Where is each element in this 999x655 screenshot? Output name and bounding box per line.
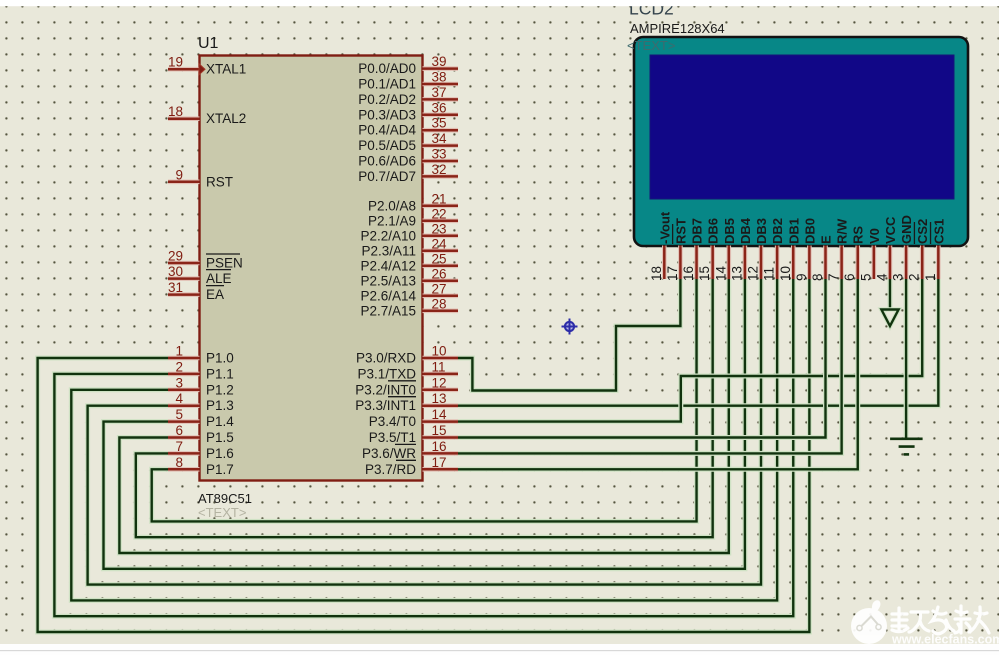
U1 pin 15 P3.5/T1 bbox=[369, 423, 458, 445]
svg-text:P0.4/AD4: P0.4/AD4 bbox=[358, 123, 416, 138]
svg-text:P0.0/AD0: P0.0/AD0 bbox=[358, 61, 416, 76]
svg-text:P1.7: P1.7 bbox=[206, 462, 234, 477]
U1 pin 32 P0.7/AD7 bbox=[358, 162, 458, 184]
U1 pin 37 P0.2/AD2 bbox=[358, 85, 458, 107]
U1 pin 4 P1.3 bbox=[168, 391, 234, 413]
svg-text:2: 2 bbox=[907, 273, 922, 281]
LCD2 screen bbox=[650, 55, 954, 199]
svg-text:P0.5/AD5: P0.5/AD5 bbox=[358, 138, 416, 153]
svg-text:29: 29 bbox=[168, 249, 183, 264]
U1 pin 6 P1.5 bbox=[168, 423, 234, 445]
svg-text:P2.2/A10: P2.2/A10 bbox=[360, 228, 416, 243]
svg-text:P1.4: P1.4 bbox=[206, 414, 234, 429]
svg-text:P0.2/AD2: P0.2/AD2 bbox=[358, 92, 416, 107]
wire P1.2 to LCD DB2 bbox=[71, 279, 777, 600]
svg-text:-Vout: -Vout bbox=[657, 211, 672, 244]
svg-text:7: 7 bbox=[826, 273, 841, 281]
LCD2 pin 18 -Vout bbox=[649, 211, 673, 281]
LCD2 pin 17 RST bbox=[665, 218, 689, 281]
svg-text:18: 18 bbox=[168, 104, 183, 119]
svg-text:12: 12 bbox=[746, 266, 761, 281]
U1 pin 31 EA bbox=[168, 280, 224, 302]
svg-text:33: 33 bbox=[432, 147, 447, 162]
svg-text:39: 39 bbox=[432, 54, 447, 69]
svg-text:P3.2/INT0: P3.2/INT0 bbox=[355, 382, 416, 397]
svg-text:DB2: DB2 bbox=[770, 218, 785, 244]
LCD2 pin 1 CS1 bbox=[923, 219, 947, 281]
svg-text:V0: V0 bbox=[867, 228, 882, 244]
svg-text:12: 12 bbox=[432, 375, 447, 390]
svg-text:27: 27 bbox=[432, 281, 447, 296]
svg-text:P2.7/A15: P2.7/A15 bbox=[360, 303, 416, 318]
U1 pin 3 P1.2 bbox=[168, 375, 234, 397]
svg-text:P1.0: P1.0 bbox=[206, 351, 234, 366]
U1 pin 29 PSEN bbox=[168, 249, 243, 271]
svg-text:VCC: VCC bbox=[883, 216, 898, 244]
U1 pin 34 P0.5/AD5 bbox=[358, 131, 458, 153]
svg-text:P3.6/WR: P3.6/WR bbox=[362, 446, 416, 461]
svg-text:9: 9 bbox=[175, 167, 183, 182]
wire P1.7 to LCD DB7 bbox=[152, 279, 697, 521]
U1 pin 25 P2.4/A12 bbox=[360, 251, 458, 273]
LCD2 pin 16 DB7 bbox=[681, 218, 705, 281]
svg-text:21: 21 bbox=[432, 191, 447, 206]
page crop band top bbox=[0, 0, 999, 6]
svg-text:DB0: DB0 bbox=[802, 218, 817, 244]
svg-text:P1.3: P1.3 bbox=[206, 398, 234, 413]
svg-text:CS1: CS1 bbox=[931, 219, 946, 244]
svg-text:P1.6: P1.6 bbox=[206, 446, 234, 461]
LCD2 pin 8 E bbox=[810, 235, 834, 281]
svg-text:P2.3/A11: P2.3/A11 bbox=[361, 243, 416, 258]
svg-text:P1.1: P1.1 bbox=[206, 366, 234, 381]
U1 pin 12 P3.2/INT0 bbox=[355, 375, 458, 397]
svg-text:P2.6/A14: P2.6/A14 bbox=[360, 288, 416, 303]
U1 pin 28 P2.7/A15 bbox=[360, 296, 458, 318]
wire P1.6 to LCD DB6 bbox=[136, 279, 713, 537]
svg-text:34: 34 bbox=[432, 131, 448, 146]
svg-text:DB5: DB5 bbox=[722, 218, 737, 244]
svg-text:EA: EA bbox=[206, 287, 224, 302]
LCD2 body bbox=[634, 37, 968, 246]
svg-text:15: 15 bbox=[697, 266, 712, 281]
wire P3.6/WR to LCD R/W bbox=[458, 279, 842, 453]
U1 pin 39 P0.0/AD0 bbox=[358, 54, 458, 76]
svg-text:XTAL1: XTAL1 bbox=[206, 62, 246, 77]
wire P3.0/RXD to LCD RST bbox=[458, 279, 680, 391]
watermark url www.elecfans.com bbox=[891, 633, 999, 647]
svg-text:P3.0/RXD: P3.0/RXD bbox=[356, 351, 416, 366]
wire P3.7/RD to LCD RS bbox=[458, 279, 858, 469]
svg-text:DB7: DB7 bbox=[690, 218, 705, 244]
svg-text:13: 13 bbox=[432, 391, 447, 406]
svg-text:7: 7 bbox=[175, 439, 183, 454]
svg-text:RST: RST bbox=[673, 218, 688, 244]
svg-text:P0.1/AD1: P0.1/AD1 bbox=[358, 77, 416, 92]
svg-text:R/W: R/W bbox=[835, 218, 850, 244]
power terminal arrow bbox=[881, 310, 898, 327]
U1 pin 9 RST bbox=[168, 167, 233, 189]
U1 pin 19 XTAL1 bbox=[168, 55, 246, 77]
LCD2 pin 7 R/W bbox=[826, 218, 850, 281]
svg-text:P1.2: P1.2 bbox=[206, 382, 234, 397]
svg-text:CS2: CS2 bbox=[915, 219, 930, 244]
svg-text:U1: U1 bbox=[198, 35, 219, 52]
svg-text:25: 25 bbox=[432, 251, 447, 266]
svg-text:24: 24 bbox=[432, 236, 448, 251]
U1 pin 21 P2.0/A8 bbox=[368, 191, 458, 213]
svg-text:18: 18 bbox=[649, 266, 664, 281]
watermark logo circle bbox=[851, 600, 887, 644]
svg-text:5: 5 bbox=[175, 407, 183, 422]
svg-text:16: 16 bbox=[681, 266, 696, 281]
svg-text:10: 10 bbox=[778, 266, 793, 281]
svg-text:DB1: DB1 bbox=[786, 218, 801, 244]
svg-text:P0.7/AD7: P0.7/AD7 bbox=[358, 169, 416, 184]
svg-text:36: 36 bbox=[432, 100, 447, 115]
svg-text:4: 4 bbox=[175, 391, 183, 406]
svg-text:1: 1 bbox=[923, 273, 938, 281]
svg-text:ALE: ALE bbox=[206, 271, 232, 286]
wire LCD GND to ground bbox=[904, 279, 909, 439]
LCD2 pin 15 DB6 bbox=[697, 218, 721, 281]
svg-text:17: 17 bbox=[665, 266, 680, 281]
wire P1.0 to LCD DB0 bbox=[38, 279, 810, 632]
U1 pin 23 P2.2/A10 bbox=[360, 221, 458, 243]
svg-text:10: 10 bbox=[432, 344, 447, 359]
svg-text:17: 17 bbox=[432, 455, 447, 470]
svg-text:<TEXT>: <TEXT> bbox=[198, 505, 246, 520]
svg-text:P2.1/A9: P2.1/A9 bbox=[368, 213, 416, 228]
svg-text:P1.5: P1.5 bbox=[206, 430, 234, 445]
svg-text:P3.7/RD: P3.7/RD bbox=[365, 462, 416, 477]
svg-text:38: 38 bbox=[432, 70, 447, 85]
svg-text:1: 1 bbox=[175, 344, 183, 359]
svg-text:28: 28 bbox=[432, 296, 447, 311]
svg-text:P0.6/AD6: P0.6/AD6 bbox=[358, 154, 416, 169]
LCD2 pin 11 DB2 bbox=[762, 218, 786, 281]
svg-text:5: 5 bbox=[858, 273, 873, 281]
svg-text:<TEXT>: <TEXT> bbox=[627, 38, 675, 53]
svg-text:3: 3 bbox=[175, 375, 183, 390]
svg-text:GND: GND bbox=[899, 215, 914, 244]
ground symbol bbox=[890, 439, 923, 455]
U1 pin 27 P2.6/A14 bbox=[360, 281, 458, 303]
svg-text:9: 9 bbox=[794, 273, 809, 281]
U1 pin 13 P3.3/INT1 bbox=[355, 391, 458, 413]
wire P1.4 to LCD DB4 bbox=[104, 279, 745, 569]
U1 pin 38 P0.1/AD1 bbox=[358, 70, 458, 92]
svg-text:RST: RST bbox=[206, 174, 233, 189]
LCD2 pin 5 V0 bbox=[858, 228, 882, 281]
svg-text:P3.5/T1: P3.5/T1 bbox=[369, 430, 416, 445]
LCD2 pin 3 GND bbox=[891, 215, 915, 281]
svg-text:6: 6 bbox=[842, 273, 857, 281]
svg-text:AMPIRE128X64: AMPIRE128X64 bbox=[630, 21, 725, 36]
svg-text:P3.4/T0: P3.4/T0 bbox=[369, 414, 416, 429]
U1 pin 35 P0.4/AD4 bbox=[358, 116, 458, 138]
svg-text:14: 14 bbox=[713, 265, 728, 281]
svg-text:8: 8 bbox=[175, 455, 183, 470]
U1 pin 11 P3.1/TXD bbox=[357, 359, 458, 381]
U1 pin 30 ALE bbox=[168, 264, 232, 286]
U1 pin 17 P3.7/RD bbox=[365, 455, 458, 477]
svg-text:23: 23 bbox=[432, 221, 447, 236]
wire P3.3/INT1 to LCD CS1 bbox=[458, 279, 938, 406]
svg-text:37: 37 bbox=[432, 85, 447, 100]
svg-text:30: 30 bbox=[168, 264, 183, 279]
svg-text:DB4: DB4 bbox=[738, 217, 753, 244]
svg-text:3: 3 bbox=[891, 273, 906, 281]
svg-text:P2.5/A13: P2.5/A13 bbox=[360, 273, 416, 288]
wire P1.5 to LCD DB5 bbox=[119, 279, 728, 553]
wire P1.1 to LCD DB1 bbox=[54, 279, 793, 616]
U1 pin 7 P1.6 bbox=[168, 439, 234, 461]
U1 pin 1 P1.0 bbox=[168, 344, 234, 366]
svg-text:15: 15 bbox=[432, 423, 447, 438]
U1 pin 10 P3.0/RXD bbox=[356, 344, 458, 366]
svg-text:22: 22 bbox=[432, 206, 447, 221]
watermark text dianzifashaoyou bbox=[892, 606, 989, 634]
svg-text:19: 19 bbox=[168, 55, 183, 70]
LCD2 pin 9 DB0 bbox=[794, 218, 818, 281]
svg-text:E: E bbox=[819, 235, 834, 244]
U1 pin 16 P3.6/WR bbox=[362, 439, 458, 461]
svg-text:P0.3/AD3: P0.3/AD3 bbox=[358, 107, 416, 122]
U1 pin 5 P1.4 bbox=[168, 407, 234, 429]
LCD2 pin 13 DB4 bbox=[729, 217, 753, 281]
svg-text:26: 26 bbox=[432, 266, 447, 281]
U1 pin 14 P3.4/T0 bbox=[369, 407, 458, 429]
svg-text:6: 6 bbox=[175, 423, 183, 438]
footer divider line bbox=[0, 650, 999, 651]
svg-text:XTAL2: XTAL2 bbox=[206, 111, 246, 126]
svg-text:14: 14 bbox=[432, 407, 448, 422]
svg-text:16: 16 bbox=[432, 439, 447, 454]
LCD2 pin 12 DB3 bbox=[746, 218, 770, 281]
svg-text:11: 11 bbox=[432, 359, 446, 374]
origin marker crosshair bbox=[562, 319, 578, 335]
svg-text:DB3: DB3 bbox=[754, 218, 769, 244]
page crop band bottom bbox=[0, 644, 999, 655]
LCD2 pin 6 RS bbox=[842, 226, 866, 281]
U1 pin 8 P1.7 bbox=[168, 455, 234, 477]
U1 pin 22 P2.1/A9 bbox=[368, 206, 458, 228]
svg-text:P2.4/A12: P2.4/A12 bbox=[360, 258, 416, 273]
svg-text:4: 4 bbox=[874, 273, 889, 281]
svg-text:PSEN: PSEN bbox=[206, 256, 243, 271]
svg-text:P2.0/A8: P2.0/A8 bbox=[368, 198, 416, 213]
LCD2 pin 2 CS2 bbox=[907, 219, 931, 281]
svg-text:31: 31 bbox=[168, 280, 183, 295]
svg-text:RS: RS bbox=[851, 226, 866, 244]
svg-text:DB6: DB6 bbox=[706, 218, 721, 244]
LCD2 pin 14 DB5 bbox=[713, 218, 737, 281]
wire LCD VCC to power terminal bbox=[887, 279, 892, 311]
chip U1 body bbox=[200, 56, 423, 481]
svg-text:11: 11 bbox=[762, 267, 777, 281]
svg-text:AT89C51: AT89C51 bbox=[198, 491, 252, 506]
wire P3.5/T1 to LCD E bbox=[458, 279, 826, 438]
U1 pin 36 P0.3/AD3 bbox=[358, 100, 458, 122]
svg-text:35: 35 bbox=[432, 116, 447, 131]
U1 pin 33 P0.6/AD6 bbox=[358, 147, 458, 169]
wire P3.4/T0 to LCD CS2 bbox=[458, 279, 922, 422]
svg-text:2: 2 bbox=[175, 359, 183, 374]
wire P1.3 to LCD DB3 bbox=[88, 279, 761, 585]
svg-text:8: 8 bbox=[810, 273, 825, 281]
svg-text:13: 13 bbox=[729, 266, 744, 281]
U1 pin 2 P1.1 bbox=[168, 359, 234, 381]
U1 pin 26 P2.5/A13 bbox=[360, 266, 458, 288]
svg-text:32: 32 bbox=[432, 162, 447, 177]
U1 pin 18 XTAL2 bbox=[168, 104, 246, 126]
svg-text:P3.3/INT1: P3.3/INT1 bbox=[355, 398, 416, 413]
svg-text:P3.1/TXD: P3.1/TXD bbox=[357, 366, 416, 381]
LCD2 pin 4 VCC bbox=[874, 216, 898, 281]
U1 pin 24 P2.3/A11 bbox=[361, 236, 458, 258]
LCD2 pin 10 DB1 bbox=[778, 218, 802, 281]
